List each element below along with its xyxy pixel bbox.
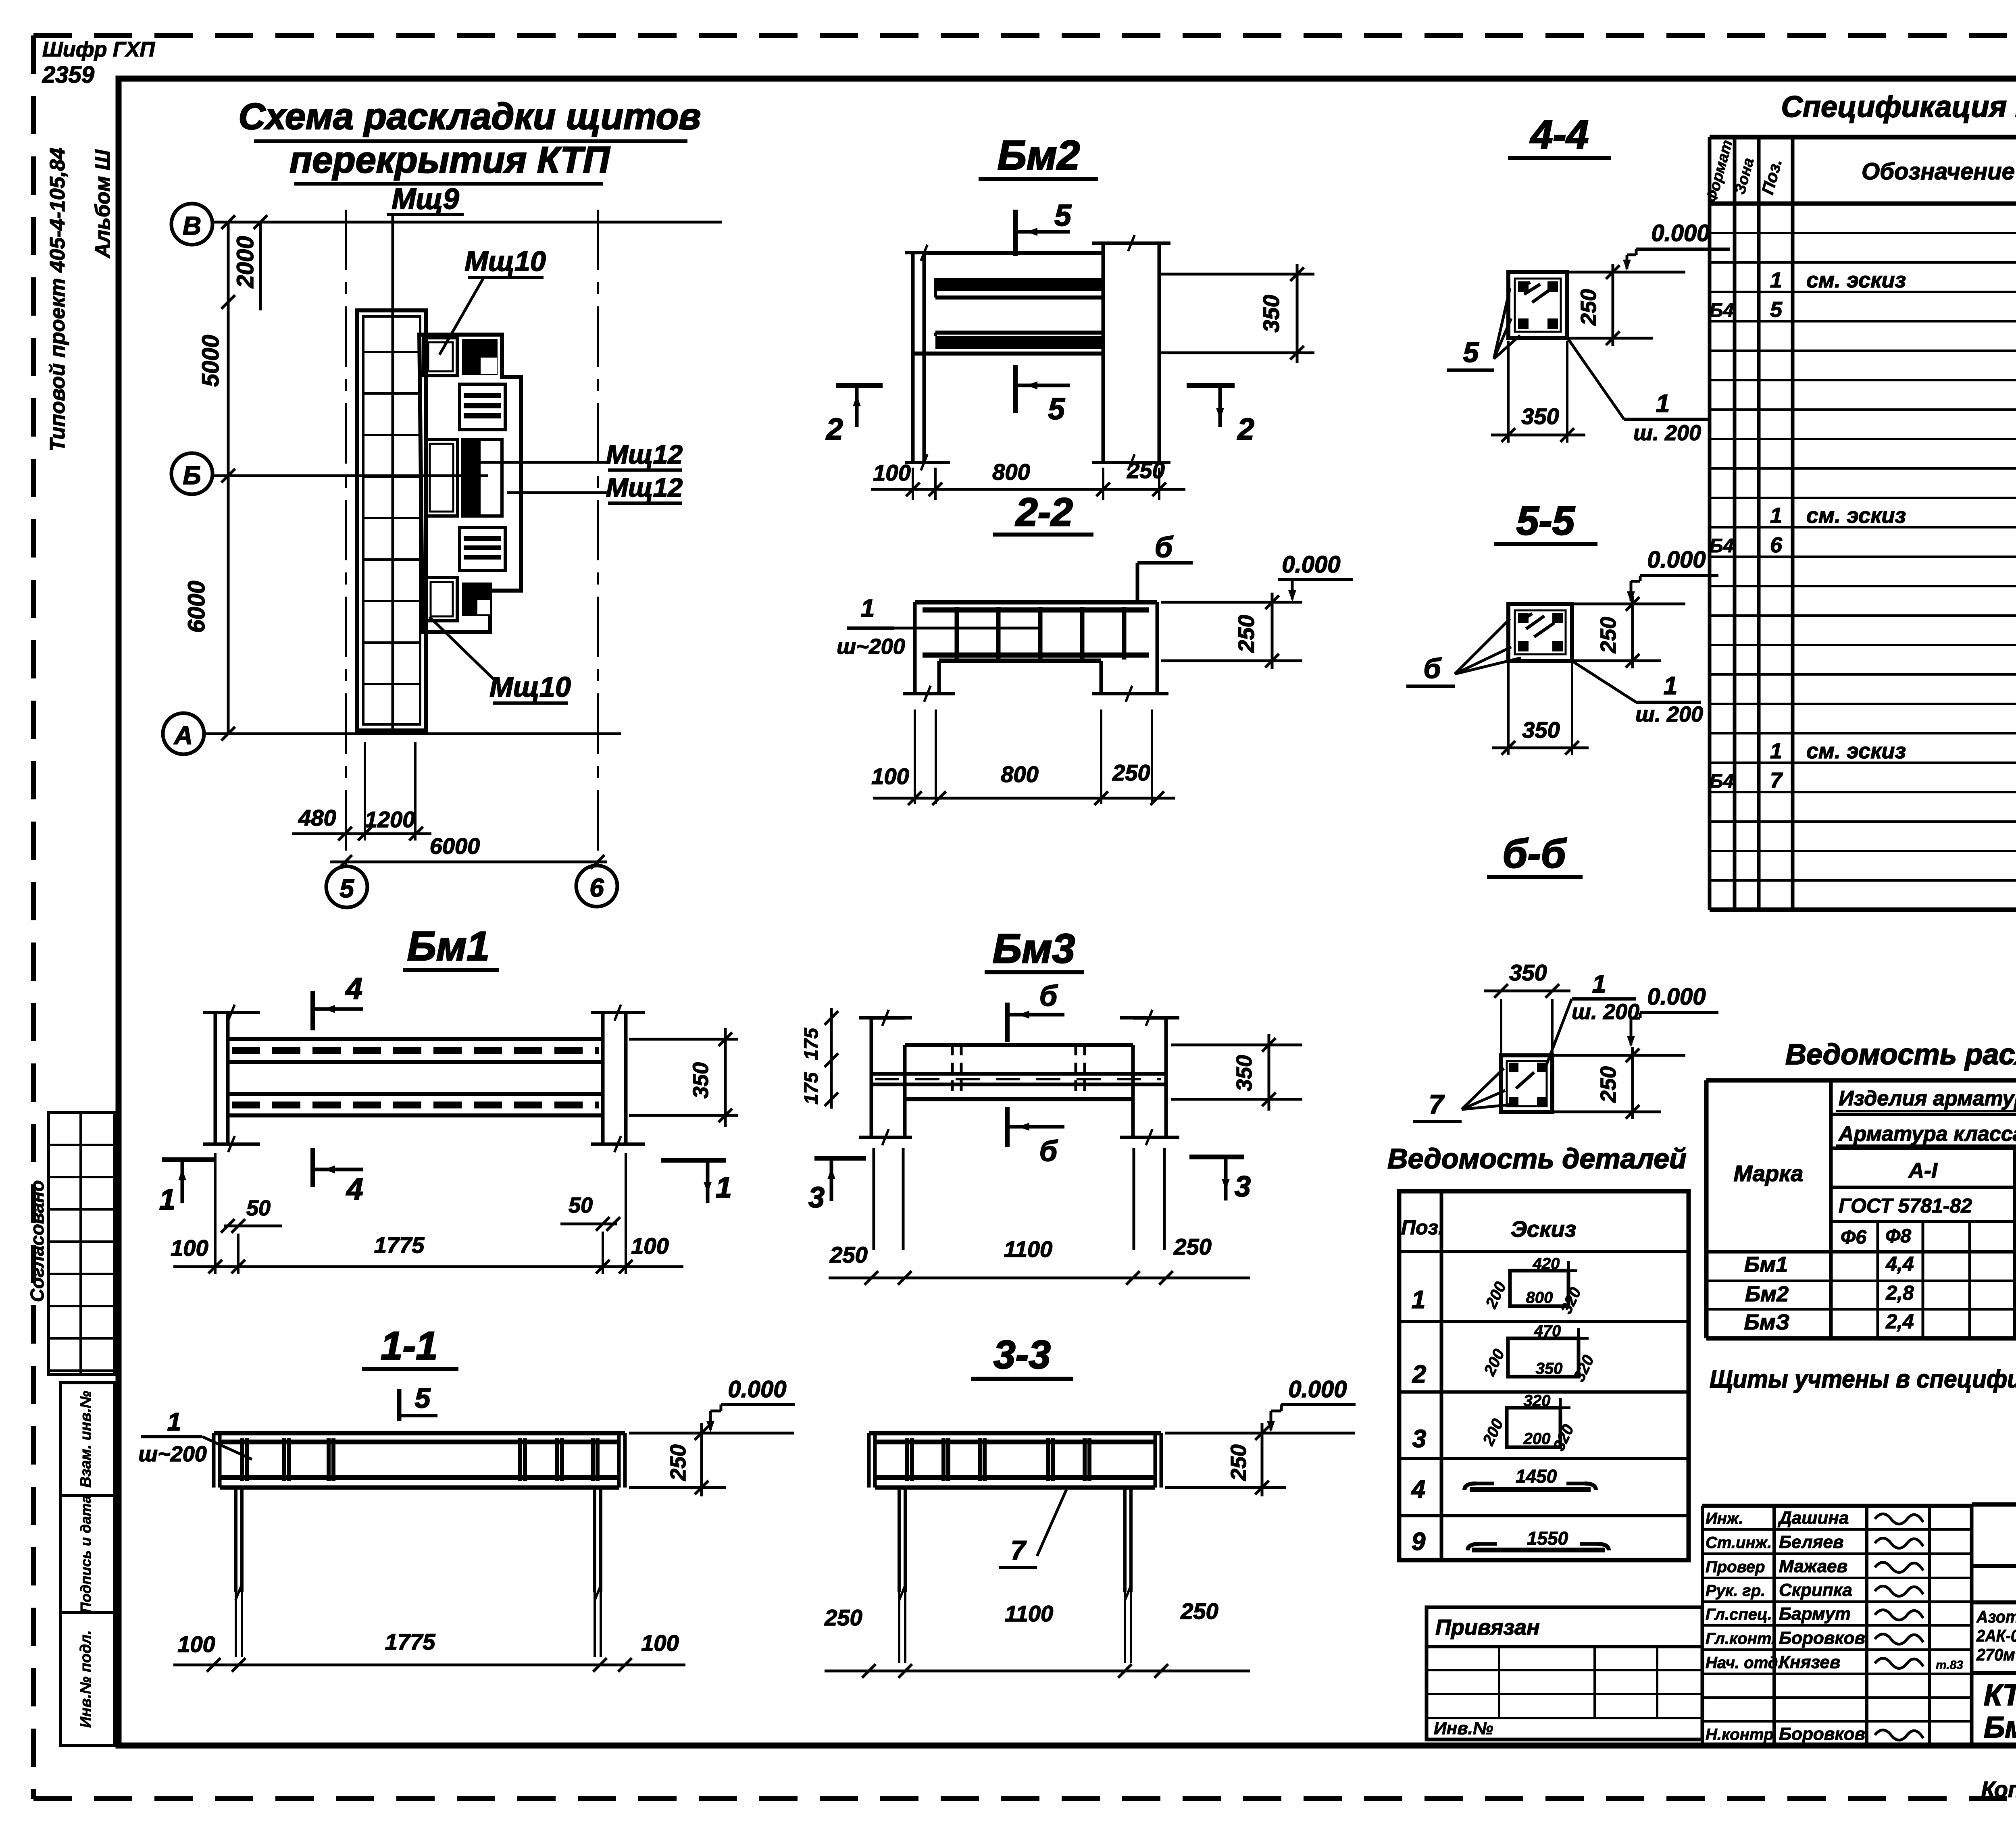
svg-text:ш. 200: ш. 200: [1635, 702, 1703, 726]
section 3-3 elevation mark 0.000: [1267, 1376, 1356, 1432]
svg-text:Боровков: Боровков: [1779, 1724, 1865, 1744]
section 2-2 right leg: [1092, 602, 1168, 702]
project description: [1976, 1607, 2016, 1664]
beam Бм3 left end: [859, 1010, 912, 1145]
svg-text:0.000: 0.000: [1282, 551, 1340, 578]
svg-text:Дашина: Дашина: [1777, 1508, 1849, 1528]
svg-text:100: 100: [641, 1630, 679, 1656]
section б-б column square: [1501, 1055, 1552, 1112]
svg-text:5: 5: [1048, 392, 1065, 426]
section 2-2 elevation mark 0.000: [1278, 551, 1353, 601]
svg-text:250: 250: [1596, 1066, 1620, 1103]
section 1-1 bar marker 5: [399, 1382, 437, 1421]
svg-text:Изделия арматурные: Изделия арматурные: [1839, 1087, 2016, 1110]
svg-text:4: 4: [345, 972, 362, 1005]
section 4-4 rebar label 1 ш.200: [1568, 339, 1710, 445]
svg-text:3-3: 3-3: [993, 1332, 1051, 1377]
svg-text:Поз.: Поз.: [1401, 1216, 1444, 1239]
beam Бм1 left end: [203, 1005, 260, 1152]
svg-text:6000: 6000: [430, 833, 480, 859]
dimension 480 and 1200: [292, 742, 431, 841]
dimension 6000: [330, 833, 607, 869]
svg-text:Ведомость деталей: Ведомость деталей: [1387, 1143, 1687, 1174]
svg-text:6: 6: [1770, 533, 1783, 557]
scheme title Схема раскладки щитов перекрытия КТП: [239, 96, 701, 184]
svg-text:Мщ10: Мщ10: [489, 671, 571, 703]
svg-text:2: 2: [1412, 1361, 1426, 1388]
svg-text:Ф8: Ф8: [1885, 1225, 1911, 1247]
section 2-2 slab: [915, 602, 1157, 661]
section 3-3 legs: [899, 1488, 1131, 1663]
svg-text:ш~200: ш~200: [837, 635, 905, 659]
svg-text:Гл.спец.: Гл.спец.: [1706, 1606, 1772, 1623]
svg-text:Беляев: Беляев: [1779, 1532, 1844, 1552]
axis line В: [212, 221, 722, 224]
section 2-2 rebar label 1 ш~200: [837, 595, 1042, 659]
svg-text:1: 1: [167, 1408, 181, 1436]
svg-text:Бармут: Бармут: [1779, 1604, 1851, 1624]
section 4-4 dimension 250 right: [1567, 264, 1653, 346]
detail row 9 sketch: [1412, 1528, 1609, 1556]
svg-text:1: 1: [1656, 390, 1670, 418]
svg-text:2АК-0,135 производительностью: 2АК-0,135 производительностью: [1976, 1626, 2016, 1645]
svg-text:б: б: [1039, 1135, 1058, 1167]
label Мщ10 top with leader: [439, 246, 546, 355]
svg-text:Типовой проект 405-4-105,84: Типовой проект 405-4-105,84: [46, 148, 69, 451]
svg-text:см. эскиз: см. эскиз: [1806, 268, 1906, 292]
beam Бм1 section marker 1 left: [159, 1160, 214, 1216]
dark bar cell mid: [463, 439, 502, 516]
svg-text:1: 1: [1412, 1286, 1425, 1314]
label Мщ12 lower with leader: [507, 472, 683, 503]
svg-text:Копировал: Копировал: [1981, 1777, 2016, 1802]
panel Мщ10 (top): [424, 338, 457, 376]
specification table headers: [1703, 138, 2016, 204]
svg-text:7: 7: [1011, 1535, 1027, 1565]
detail row 2 sketch: [1412, 1322, 1598, 1388]
svg-text:250: 250: [1577, 289, 1601, 326]
label Мщ10 bottom with leader: [429, 617, 571, 703]
svg-text:1100: 1100: [1004, 1236, 1052, 1262]
section 1-1 dimension 250 right: [629, 1423, 794, 1496]
svg-text:1: 1: [1592, 970, 1606, 998]
svg-text:2,8: 2,8: [1885, 1282, 1914, 1304]
svg-text:2000: 2000: [232, 236, 258, 288]
svg-text:1: 1: [716, 1171, 732, 1204]
section 2-2 left leg: [903, 602, 955, 702]
beam Бм3 mid band: [871, 1074, 1166, 1084]
svg-text:б: б: [1423, 653, 1441, 684]
svg-text:Арматура класса: Арматура класса: [1838, 1122, 2016, 1146]
detail table grid: [1399, 1191, 1689, 1560]
section 5-5 elevation mark 0.000: [1572, 547, 1718, 604]
svg-text:7: 7: [1770, 768, 1783, 793]
svg-text:см. эскиз: см. эскиз: [1806, 739, 1906, 763]
beam Бм2 dimensions 100 800 250: [871, 458, 1185, 500]
beam Бм3 title: [985, 926, 1084, 972]
section 4-4 rebar label 5 with leaders: [1447, 288, 1520, 370]
section 1-1 rebar label 1 ш~200: [138, 1408, 252, 1466]
beam Бм1 section marker 1 right: [661, 1160, 732, 1204]
beam Бм3 section marker 3 left: [808, 1158, 866, 1214]
beam Бм2 section marker 2 left: [825, 385, 883, 446]
note below steel table: [1710, 1365, 2016, 1393]
beam Бм3 dimension 350 right: [1171, 1034, 1302, 1111]
beam Бм2 bottom flange: [913, 333, 1103, 354]
svg-text:Эскиз: Эскиз: [1511, 1216, 1577, 1242]
svg-text:175: 175: [801, 1028, 822, 1060]
svg-text:Бм1: Бм1: [1744, 1253, 1788, 1277]
beam Бм1 top flange: [228, 1039, 603, 1062]
beam Бм3 right end: [1120, 1010, 1179, 1145]
svg-text:Б4: Б4: [1710, 535, 1734, 557]
beam Бм3 stirrup pair left: [952, 1045, 961, 1099]
striped panel cell 2: [460, 528, 505, 570]
section 5-5 rebar label б with leaders: [1406, 619, 1521, 686]
svg-text:Бм2: Бм2: [998, 132, 1080, 178]
svg-text:270м³/ч азота и 70м³/ч кислоро: 270м³/ч азота и 70м³/ч кислорода: [1976, 1645, 2016, 1664]
section 3-3 slab: [869, 1433, 1161, 1488]
svg-text:350: 350: [1536, 1360, 1563, 1377]
svg-text:Ст.инж.: Ст.инж.: [1706, 1534, 1772, 1552]
section б-б rebar label 1 ш.200: [1547, 970, 1639, 1064]
svg-text:Ф6: Ф6: [1841, 1227, 1866, 1248]
svg-text:4: 4: [1411, 1475, 1425, 1503]
svg-text:б: б: [1155, 531, 1174, 564]
svg-text:4: 4: [346, 1172, 363, 1206]
beam Бм3 section marker б bottom: [1007, 1107, 1064, 1167]
svg-text:5000: 5000: [198, 335, 224, 387]
section 2-2 bottom dimensions 100 800 250: [871, 709, 1175, 805]
svg-text:Бм2: Бм2: [1745, 1282, 1789, 1306]
svg-text:Щиты учтены в спецификации на: Щиты учтены в спецификации на листе 38.: [1710, 1365, 2016, 1393]
svg-text:200: 200: [1523, 1430, 1551, 1448]
svg-text:Мщ12: Мщ12: [606, 472, 683, 502]
svg-text:350: 350: [1258, 295, 1284, 332]
svg-text:Ведомость расхода стали на эле: Ведомость расхода стали на элемент, кг.: [1785, 1038, 2016, 1071]
svg-text:Нач. отд.: Нач. отд.: [1706, 1654, 1782, 1672]
svg-text:250: 250: [666, 1444, 690, 1481]
svg-text:0.000: 0.000: [728, 1376, 786, 1402]
left margin inventory boxes: [60, 1383, 115, 1746]
svg-text:5: 5: [1463, 337, 1479, 368]
svg-text:2359: 2359: [42, 62, 94, 88]
svg-text:2-2: 2-2: [1015, 490, 1073, 534]
svg-text:100: 100: [871, 764, 909, 789]
section 3-3 dimension 250 right: [1165, 1423, 1355, 1496]
section 5-5 title: [1494, 498, 1597, 544]
svg-text:Б: Б: [183, 461, 201, 490]
section 4-4 elevation mark 0.000: [1567, 220, 1730, 272]
svg-text:Гл.конт.: Гл.конт.: [1706, 1630, 1776, 1648]
handwritten code Шифр ГХП 2359 top-left: [42, 38, 155, 88]
section 5-5 bottom dimension 350: [1492, 663, 1589, 755]
section 3-3 rebar label 7 with leader: [999, 1490, 1066, 1567]
svg-text:Мщ12: Мщ12: [606, 439, 683, 469]
svg-text:ш. 200: ш. 200: [1572, 1000, 1639, 1024]
section 4-4 bottom dimension 350: [1491, 341, 1585, 443]
svg-text:1775: 1775: [374, 1232, 425, 1258]
beam Бм3 bottom dimension 250 1100 250: [829, 1234, 1250, 1285]
axis circle В: [171, 204, 212, 245]
svg-text:5: 5: [339, 874, 354, 903]
svg-text:4,4: 4,4: [1885, 1253, 1914, 1275]
beam Бм1 bottom flange: [228, 1094, 603, 1115]
привязан block: [1427, 1607, 1702, 1739]
svg-text:ГОСТ 5781-82: ГОСТ 5781-82: [1839, 1194, 1972, 1217]
svg-text:4-4: 4-4: [1530, 112, 1589, 157]
personnel table names: [1706, 1508, 1963, 1744]
beam Бм2 section marker 2 right: [1187, 385, 1254, 446]
svg-text:350: 350: [689, 1062, 713, 1099]
left margin rotated label Согласовано: [27, 1180, 48, 1302]
beam Бм2 section marker 5 top: [1015, 198, 1072, 256]
beam Бм1 dimension 350 right: [629, 1028, 738, 1127]
svg-text:175: 175: [801, 1072, 822, 1105]
svg-text:1: 1: [861, 595, 875, 622]
svg-text:250: 250: [1227, 1444, 1251, 1481]
svg-text:Н.контр: Н.контр: [1706, 1726, 1774, 1744]
specification table content: [1710, 205, 2016, 881]
svg-text:250: 250: [824, 1605, 862, 1630]
steel table data rows: [1744, 1247, 2016, 1334]
svg-text:470: 470: [1534, 1322, 1561, 1340]
axis line Б: [212, 474, 488, 477]
beam Бм1 dimension 50 right: [560, 1193, 620, 1231]
svg-text:Мщ10: Мщ10: [464, 246, 546, 277]
svg-text:Князев: Князев: [1779, 1652, 1840, 1672]
vertical dimension chain 2000/5000/6000: [183, 215, 260, 741]
svg-text:б: б: [1039, 980, 1058, 1012]
svg-text:480: 480: [298, 805, 336, 830]
svg-text:Бм1: Бм1: [407, 923, 489, 969]
specification table title: [1781, 90, 2016, 123]
svg-text:1-1: 1-1: [381, 1323, 438, 1368]
section 1-1 bottom dimension 100 1775 100: [173, 1629, 685, 1672]
beam Бм3 bottom legs: [874, 1148, 1164, 1250]
beam Бм1 dimension 50 left: [221, 1196, 282, 1233]
beam Бм1 right end: [591, 1005, 645, 1152]
beam Бм1 title: [403, 923, 499, 970]
beam Бм2 title: [979, 132, 1098, 179]
section 4-4 title: [1508, 112, 1611, 158]
svg-text:Привязан: Привязан: [1435, 1615, 1540, 1640]
svg-text:Спецификация на элемент констр: Спецификация на элемент конструкции: [1781, 90, 2016, 123]
svg-text:Схема раскладки щитов: Схема раскладки щитов: [239, 96, 701, 137]
personnel table grid: [1702, 1506, 1972, 1746]
svg-text:50: 50: [246, 1196, 271, 1220]
svg-text:420: 420: [1533, 1255, 1560, 1273]
svg-text:Боровков: Боровков: [1779, 1628, 1865, 1648]
dark panel cell top: [462, 339, 498, 375]
svg-text:1: 1: [159, 1184, 175, 1216]
svg-text:1: 1: [1664, 672, 1677, 700]
section б-б title: [1487, 831, 1583, 877]
svg-text:Инв.№: Инв.№: [1434, 1719, 1493, 1738]
svg-text:250: 250: [1233, 615, 1259, 653]
steel table grid: [1706, 1080, 2016, 1338]
axis tick В: [221, 215, 267, 229]
svg-text:350: 350: [1522, 717, 1560, 743]
title block frame: [1972, 1504, 2016, 1746]
section б-б rebar label 7 with leaders: [1413, 1068, 1511, 1121]
svg-text:ш. 200: ш. 200: [1633, 421, 1701, 445]
svg-text:т.83: т.83: [1936, 1658, 1963, 1672]
svg-text:2,4: 2,4: [1885, 1310, 1914, 1333]
beam Бм1 bottom dimension 100 1775 100: [171, 1153, 683, 1274]
svg-text:5: 5: [1770, 298, 1783, 322]
section 1-1 slab: [214, 1433, 625, 1488]
svg-text:Скрипка: Скрипка: [1779, 1580, 1852, 1600]
beam Бм3 bottom slab line: [905, 1097, 1133, 1101]
svg-text:3: 3: [1235, 1171, 1251, 1203]
section 1-1 legs: [235, 1488, 601, 1657]
svg-text:1: 1: [1770, 504, 1782, 528]
beam Бм2 right wall: [1092, 235, 1170, 470]
svg-text:Рук. гр.: Рук. гр.: [1706, 1582, 1765, 1600]
beam Бм1 section marker 4 top: [313, 972, 363, 1030]
svg-text:6: 6: [589, 873, 604, 902]
section 4-4 column square: [1508, 272, 1567, 338]
svg-text:0.000: 0.000: [1647, 984, 1706, 1010]
panel cluster stepped outline: [419, 335, 521, 632]
section б-б elevation mark 0.000: [1552, 984, 1718, 1055]
section 1-1 title: [362, 1323, 458, 1369]
svg-text:800: 800: [992, 459, 1030, 485]
beam Бм2 section marker 5 bottom: [1015, 365, 1070, 426]
svg-text:5: 5: [1054, 198, 1072, 232]
axis line А: [204, 732, 621, 735]
svg-text:320: 320: [1524, 1392, 1551, 1410]
panel Мщ10 (bottom): [426, 578, 457, 621]
steel table headers: [1734, 1087, 2016, 1248]
svg-text:1100: 1100: [1005, 1601, 1053, 1626]
svg-text:1: 1: [1770, 268, 1782, 292]
tall panel mid: [425, 439, 458, 516]
left margin rotated text Типовой проект 405-4-105.84: [46, 148, 115, 451]
svg-text:250: 250: [1180, 1598, 1218, 1624]
axis circle Б: [171, 453, 212, 494]
detail row 3 sketch: [1412, 1392, 1578, 1454]
svg-text:КТП. Балки Бм1,: КТП. Балки Бм1,: [1984, 1678, 2016, 1712]
svg-text:БмЗ: БмЗ: [1744, 1310, 1790, 1334]
left margin approval grid: [48, 1113, 115, 1375]
svg-text:Инж.: Инж.: [1706, 1510, 1743, 1527]
svg-text:250: 250: [1173, 1234, 1211, 1259]
svg-text:Бм3: Бм3: [993, 926, 1075, 972]
beam Бм3 section marker б top: [1007, 980, 1064, 1042]
svg-text:250: 250: [1127, 458, 1164, 483]
svg-text:0.000: 0.000: [1651, 220, 1710, 246]
svg-text:350: 350: [1509, 960, 1547, 985]
svg-text:Альбом Ш: Альбом Ш: [91, 149, 115, 259]
beam Бм2 left break edge: [905, 245, 950, 470]
svg-text:перекрытия КТП: перекрытия КТП: [289, 139, 610, 181]
svg-text:5: 5: [415, 1382, 431, 1414]
svg-text:А-I: А-I: [1908, 1159, 1938, 1183]
section 5-5 rebar label 1 ш.200: [1573, 662, 1703, 726]
svg-text:Б4: Б4: [1710, 300, 1734, 321]
object name КТП Балки: [1984, 1678, 2016, 1744]
svg-text:Взам. инв.№: Взам. инв.№: [77, 1391, 94, 1488]
steel table title: [1785, 1038, 2016, 1071]
detail table title: [1387, 1143, 1687, 1174]
svg-text:800: 800: [1526, 1289, 1553, 1307]
svg-text:ш~200: ш~200: [138, 1442, 207, 1466]
svg-text:Мажаев: Мажаев: [1779, 1556, 1847, 1576]
svg-text:Инв.№ подл.: Инв.№ подл.: [77, 1630, 94, 1728]
svg-text:Мщ9: Мщ9: [392, 183, 459, 215]
svg-text:350: 350: [1232, 1055, 1256, 1091]
svg-text:Провер: Провер: [1706, 1558, 1765, 1576]
detail table headers: [1401, 1216, 1576, 1242]
svg-text:Марка: Марка: [1734, 1161, 1804, 1186]
beam Бм3 dimension 175 175 left: [801, 1008, 838, 1109]
beam Бм3 stirrup pair right: [1076, 1045, 1085, 1099]
svg-text:250: 250: [1112, 760, 1150, 785]
specification table grid: [1710, 137, 2016, 910]
svg-text:0.000: 0.000: [1288, 1376, 1347, 1402]
section 5-5 dimension 250 right: [1572, 596, 1661, 668]
label Мщ12 upper with leader: [478, 439, 683, 470]
beam Бм3 section marker 3 right: [1189, 1157, 1251, 1203]
grid line 6 and circle 6: [576, 210, 617, 907]
detail row 4 sketch: [1411, 1466, 1596, 1503]
detail row 1 sketch: [1412, 1255, 1585, 1317]
section б-б dimension 250 right: [1552, 1047, 1661, 1119]
svg-text:Согласовано: Согласовано: [27, 1180, 48, 1302]
svg-text:350: 350: [1521, 404, 1559, 429]
label Мщ9 with leader: [387, 183, 464, 730]
svg-text:800: 800: [1001, 761, 1038, 787]
svg-text:5-5: 5-5: [1516, 498, 1575, 543]
section 2-2 cut marker б: [1137, 531, 1193, 604]
svg-text:Б4: Б4: [1710, 771, 1734, 792]
svg-text:1775: 1775: [385, 1629, 435, 1654]
beam Бм2 top flange: [924, 253, 1103, 298]
section 1-1 elevation mark 0.000: [706, 1376, 795, 1432]
svg-text:3: 3: [808, 1182, 825, 1214]
svg-text:0.000: 0.000: [1647, 547, 1706, 573]
svg-text:Шифр ГХП: Шифр ГХП: [42, 38, 155, 61]
svg-text:250: 250: [829, 1242, 867, 1267]
svg-text:Азотно-кислородная станция,: Азотно-кислородная станция,: [1976, 1607, 2016, 1626]
svg-text:1450: 1450: [1516, 1466, 1557, 1487]
svg-text:100: 100: [631, 1233, 669, 1259]
beam Бм1 section marker 4 bottom: [313, 1148, 363, 1206]
svg-text:100: 100: [171, 1235, 208, 1261]
svg-text:9: 9: [1412, 1528, 1426, 1556]
svg-text:100: 100: [177, 1631, 215, 1657]
section 5-5 column square: [1508, 604, 1572, 661]
svg-text:б-б: б-б: [1502, 831, 1567, 876]
grid line 5 and circle 5: [326, 210, 367, 907]
svg-text:50: 50: [569, 1193, 593, 1217]
section 2-2 title: [993, 490, 1093, 535]
svg-text:250: 250: [1596, 617, 1620, 653]
svg-text:1550: 1550: [1527, 1528, 1568, 1549]
svg-text:см. эскиз: см. эскиз: [1806, 504, 1906, 528]
beam Бм2 dimension 350 right: [1161, 264, 1314, 363]
section 2-2 dimension 250 right: [1161, 593, 1302, 669]
svg-text:В: В: [183, 211, 201, 240]
svg-text:1: 1: [1770, 739, 1782, 763]
axis circle А: [163, 713, 204, 754]
floor panel column Мщ9 grid: [357, 310, 426, 730]
striped panel cell: [460, 384, 505, 430]
svg-text:1200: 1200: [365, 807, 415, 832]
svg-text:100: 100: [873, 460, 910, 485]
